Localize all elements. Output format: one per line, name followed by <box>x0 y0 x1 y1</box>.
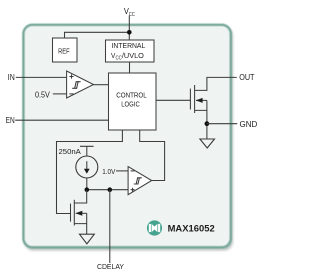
svg-text:OUT: OUT <box>239 73 254 82</box>
svg-text:CONTROL: CONTROL <box>116 91 146 100</box>
svg-text:LOGIC: LOGIC <box>121 100 140 109</box>
svg-text:/UVLO: /UVLO <box>122 51 144 60</box>
svg-text:GND: GND <box>240 120 258 129</box>
svg-text:EN: EN <box>6 116 15 125</box>
svg-text:MAX16052: MAX16052 <box>168 224 215 234</box>
svg-text:CDELAY: CDELAY <box>97 264 124 271</box>
svg-text:0.5V: 0.5V <box>35 91 50 100</box>
svg-text:REF: REF <box>58 46 70 55</box>
svg-text:250nA: 250nA <box>59 147 81 156</box>
svg-text:1.0V: 1.0V <box>102 167 115 176</box>
svg-text:INTERNAL: INTERNAL <box>112 41 146 50</box>
svg-text:IN: IN <box>8 73 15 82</box>
